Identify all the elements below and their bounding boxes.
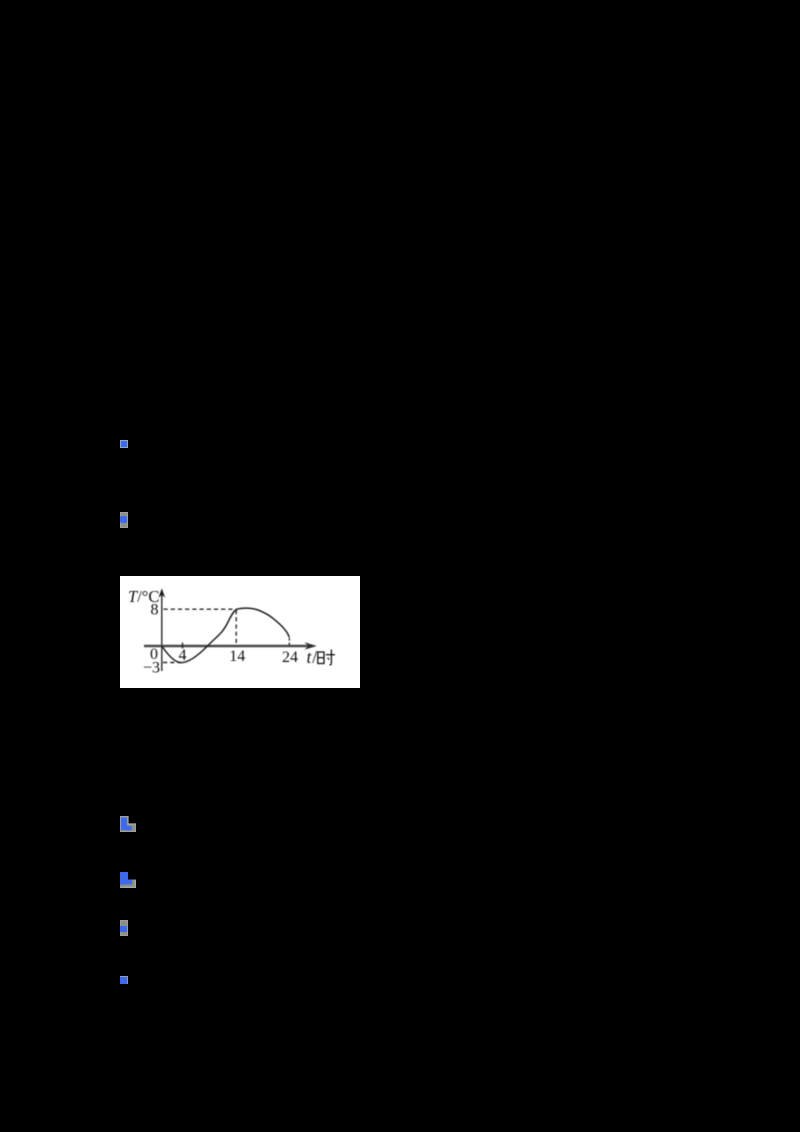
placeholder icon 4 (L-shape, blue top-left block, gray bottom) — [120, 872, 136, 888]
svg-text:/: / — [312, 647, 317, 667]
svg-text:24: 24 — [282, 649, 298, 666]
placeholder icon 1 (small blue square) — [120, 440, 128, 448]
temperature curve — [162, 608, 289, 663]
svg-text:−3: −3 — [143, 660, 160, 677]
placeholder icon 3 (L-shape, blue bar + blue blob) — [120, 816, 136, 832]
dashed vertical at t=24 — [288, 638, 290, 646]
svg-text:14: 14 — [229, 648, 245, 665]
y-axis — [161, 594, 163, 672]
svg-text:4: 4 — [179, 647, 187, 664]
hand-drawn 时 glyph — [318, 650, 335, 665]
dashed at y=-3 — [163, 662, 181, 664]
dashed at y=8 — [164, 608, 237, 610]
placeholder icon 6 (blue square, gray top/right border) — [120, 976, 128, 984]
x-axis — [144, 645, 308, 648]
dashed vertical at t=14 — [235, 610, 237, 645]
placeholder icon 2 (gray tall rect with blue blob upper) — [120, 512, 128, 528]
svg-text:8: 8 — [151, 602, 159, 619]
temperature chart figure — [120, 576, 360, 688]
tick at 4 — [182, 643, 184, 649]
placeholder icon 5 (gray tall rect with centered blue square) — [120, 920, 128, 936]
